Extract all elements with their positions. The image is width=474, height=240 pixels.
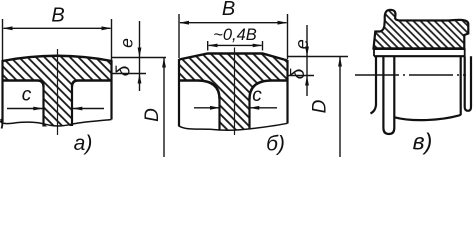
fig b: hatched T-section with tapered web	[179, 54, 288, 131]
dimension ~0,4B (fig b): left extension tick	[207, 41, 209, 51]
svg-text:е: е	[292, 39, 312, 49]
dimension B (fig b): dimension line	[180, 22, 287, 24]
dimension D (fig b): vertical line with up arrow	[339, 57, 341, 158]
dimension B (fig a): left arrowhead	[3, 26, 13, 30]
fig a: break line left curl	[1, 119, 3, 129]
svg-text:а): а)	[74, 132, 93, 155]
extension line of rim inner level (fig b)	[288, 75, 315, 77]
fig b: rim left outer edge	[178, 59, 180, 127]
fig v: right hanging leg (web edge)	[465, 56, 471, 111]
fig a: rim right outer edge	[110, 60, 112, 120]
dimension B (fig a): right extension line	[111, 19, 113, 60]
svg-text:б): б)	[266, 133, 285, 156]
fig a: web left face	[42, 86, 44, 127]
fig b: web centerline	[234, 48, 236, 136]
dimension delta (fig a): lower line with up arrow	[138, 74, 142, 84]
fig v: horizontal dash-dot centerline	[355, 74, 466, 76]
dimension B (fig a): dimension line	[4, 27, 111, 29]
svg-text:с: с	[252, 85, 262, 106]
fig b: web right face	[248, 98, 250, 130]
dimension D (fig a): vertical line with up arrow	[163, 58, 165, 158]
svg-text:В: В	[51, 5, 64, 27]
svg-text:В: В	[222, 0, 235, 20]
fig a: rim top crowned edge	[3, 56, 112, 61]
extension line of crown top (fig a)	[112, 57, 167, 59]
dimension ~0,4B (fig b): right extension tick	[262, 41, 264, 51]
fig v: barrel bottom arc	[395, 114, 461, 120]
fig a: web centerline	[57, 49, 59, 135]
fig b: rim inner surface left with large fillet	[179, 81, 220, 100]
fig v: rim inner band bottom line	[374, 55, 465, 57]
dimension e (fig a): vertical line with down arrow	[139, 21, 141, 91]
fig a: web right face	[71, 86, 73, 126]
svg-text:~0,4В: ~0,4В	[213, 26, 257, 44]
dimension B (fig b): right arrowhead	[278, 21, 288, 25]
svg-text:δ: δ	[288, 68, 309, 79]
extension line of rim inner level (fig a)	[112, 73, 147, 75]
dimension c (fig b): right segment with left arrowhead	[250, 107, 278, 109]
fig v: barrel left edge with flare hook	[371, 56, 377, 113]
extension line of crown top (fig b)	[288, 56, 349, 58]
fig v: hatched rim section with casting lug	[374, 10, 469, 49]
fig a: rim inner surface left with fillet into web	[3, 81, 44, 87]
dimension c (fig a): left segment with right arrowhead	[7, 108, 43, 110]
dimension B (fig b): left arrowhead	[179, 21, 189, 25]
dimension B (fig b): right extension line	[287, 14, 289, 59]
dimension ~0,4B (fig b): left arrowhead	[208, 44, 218, 48]
svg-text:D: D	[142, 108, 163, 122]
fig a: rim left outer edge	[1, 60, 3, 122]
dimension ~0,4B (fig b): right arrowhead	[253, 44, 263, 48]
svg-text:D: D	[310, 99, 331, 113]
dimension delta (fig b): lower line with up arrow	[305, 76, 309, 86]
dimension B (fig a): right arrowhead	[102, 26, 112, 30]
fig b: break (wavy) line	[179, 123, 288, 130]
svg-text:в): в)	[413, 129, 433, 155]
fig v: left hanging leg (web edge)	[383, 56, 394, 134]
fig b: web left face	[218, 98, 220, 130]
fig b: rim right outer edge	[286, 60, 288, 124]
fig v: barrel right edge	[460, 56, 462, 114]
fig v: band right edge	[464, 49, 466, 57]
dimension B (fig a): left extension line	[2, 19, 4, 60]
svg-text:е: е	[117, 38, 137, 48]
fig a: break (wavy) line	[0, 120, 112, 126]
fig v: rim section bottom thick line	[374, 47, 465, 50]
fig b: rim top trapezoid edge	[179, 54, 288, 61]
dimension c (fig a): right segment with left arrowhead	[73, 108, 105, 110]
svg-text:δ: δ	[114, 65, 135, 76]
fig a: hatched T-section (rim band + web)	[3, 56, 112, 127]
dimension B (fig b): left extension line	[178, 14, 180, 58]
dimension c (fig b): left segment with right arrowhead	[194, 107, 220, 109]
fig v: band left edge	[373, 49, 375, 57]
dimension e (fig b): vertical line with down arrow	[306, 25, 308, 96]
fig a: rim inner surface right with fillet into web	[72, 81, 112, 87]
dimension ~0,4B (fig b): dimension line	[209, 44, 262, 46]
svg-text:с: с	[22, 85, 32, 106]
fig b: rim inner surface right with large fillet	[250, 81, 288, 100]
